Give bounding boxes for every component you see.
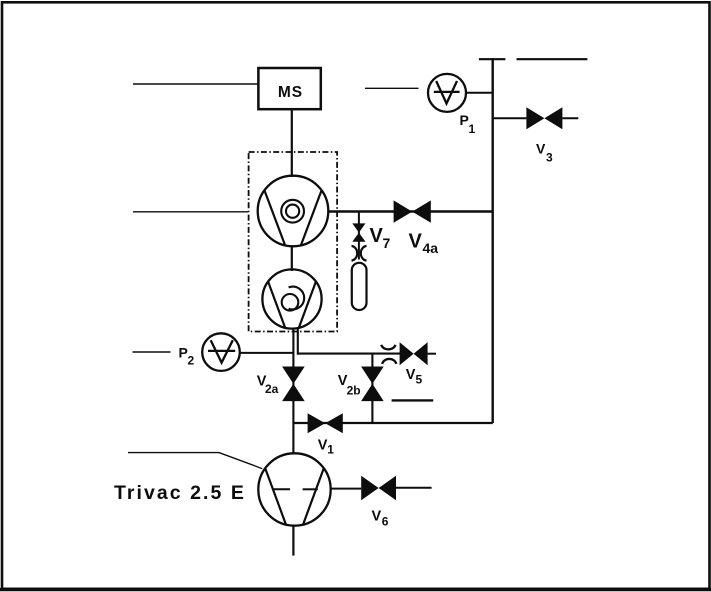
bare line segment near V5 bbox=[392, 399, 434, 401]
valve V6 bbox=[361, 476, 396, 500]
svg-text:2a: 2a bbox=[265, 382, 279, 396]
dashed enclosure (pump unit) bbox=[249, 152, 338, 332]
wire leader to P2 bbox=[133, 351, 171, 353]
wire V3 branch bbox=[493, 117, 527, 119]
wire junction to V2b/V5 branch bbox=[298, 353, 400, 355]
test capsule below V7 bbox=[352, 263, 367, 310]
wire top right segment bbox=[517, 58, 588, 60]
svg-text:3: 3 bbox=[546, 151, 553, 165]
leader line to Trivac bbox=[128, 453, 262, 469]
wire right of V6 bbox=[396, 487, 432, 489]
svg-text:V: V bbox=[370, 225, 384, 247]
wire top cap bbox=[479, 58, 506, 60]
wire high-vac line to main line (through V4a) bbox=[329, 210, 493, 212]
svg-text:2b: 2b bbox=[347, 383, 361, 397]
svg-text:V: V bbox=[536, 141, 546, 157]
wire tap to V7 bbox=[358, 212, 360, 260]
svg-text:Trivac 2.5 E: Trivac 2.5 E bbox=[114, 482, 246, 504]
valve V2a bbox=[282, 367, 305, 402]
gauge P1 bbox=[428, 74, 466, 112]
svg-text:P: P bbox=[179, 345, 188, 361]
svg-text:MS: MS bbox=[278, 84, 303, 101]
valve V4a bbox=[394, 200, 431, 222]
valve V1 bbox=[308, 413, 343, 433]
wire P1 to main line bbox=[466, 92, 493, 94]
svg-text:4a: 4a bbox=[423, 240, 439, 256]
coupling below V7 bbox=[352, 246, 358, 261]
wire Trivac to V6 bbox=[331, 488, 362, 490]
svg-text:6: 6 bbox=[382, 515, 389, 529]
wire Trivac exhaust bbox=[292, 526, 294, 556]
svg-text:V: V bbox=[406, 367, 416, 383]
svg-text:5: 5 bbox=[416, 372, 423, 386]
wire pump outlet (double line) bbox=[292, 328, 294, 454]
svg-text:2: 2 bbox=[188, 354, 195, 368]
valve V7 bbox=[352, 223, 365, 241]
wire MS to pump unit bbox=[291, 109, 293, 177]
svg-text:7: 7 bbox=[383, 235, 391, 251]
valve V3 bbox=[526, 107, 562, 129]
pump Trivac 2.5 E (rotary vane) bbox=[258, 453, 330, 525]
valve V2b bbox=[361, 367, 384, 402]
gauge P2 bbox=[202, 333, 240, 371]
wire V2b vertical bbox=[371, 354, 373, 424]
wire between pump stages bbox=[291, 246, 293, 271]
wire P2 to outlet bbox=[240, 352, 294, 354]
coupling (flexible joint) before V5 bbox=[381, 345, 395, 350]
wire leader to pump unit bbox=[133, 211, 248, 213]
wire leader to MS bbox=[133, 83, 258, 85]
svg-text:1: 1 bbox=[469, 122, 476, 136]
svg-text:V: V bbox=[409, 231, 423, 253]
wire roughing line through V1 bbox=[293, 422, 492, 424]
svg-text:V: V bbox=[372, 509, 382, 525]
wire right of V5 bbox=[428, 353, 436, 355]
wire main vertical line bbox=[492, 58, 494, 423]
wire leader to P1 bbox=[365, 87, 419, 89]
pump stage 2 (lower circle) bbox=[262, 269, 321, 328]
svg-text:1: 1 bbox=[327, 443, 334, 457]
box MS (mass spectrometer) bbox=[258, 68, 320, 109]
pump stage 1 (upper circle) bbox=[258, 176, 329, 247]
svg-text:P: P bbox=[460, 112, 469, 128]
valve V5 bbox=[400, 342, 428, 365]
